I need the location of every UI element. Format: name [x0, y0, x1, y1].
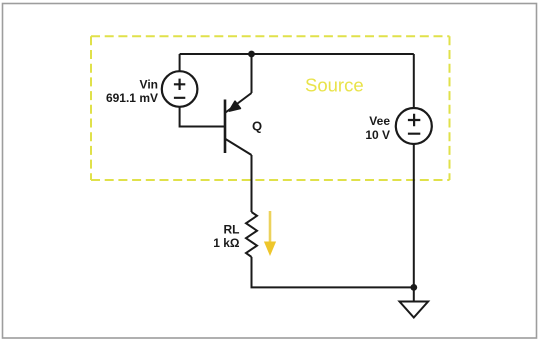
svg-text:691.1 mV: 691.1 mV — [106, 91, 158, 105]
wire Vin top lead — [179, 54, 181, 71]
source region dashed box — [91, 36, 450, 180]
svg-text:RL: RL — [224, 223, 240, 237]
wire Vin bottom lead to base — [180, 107, 224, 127]
resistor RL — [246, 212, 257, 257]
wire Vee top lead from rail — [413, 54, 415, 108]
transistor Q (PNP) — [225, 93, 252, 155]
label Source — [305, 75, 364, 96]
svg-text:Source: Source — [305, 75, 364, 96]
current arrow (yellow) — [264, 211, 276, 256]
node junction dot top rail — [248, 51, 255, 58]
label Vin 691.1 mV — [106, 78, 158, 106]
voltage source Vee — [396, 108, 432, 144]
wire collector to top rail — [251, 54, 253, 93]
svg-text:Vee: Vee — [369, 114, 390, 128]
voltage source Vin — [162, 71, 198, 107]
svg-text:Q: Q — [252, 119, 262, 134]
wire Vee bottom lead to ground node — [413, 144, 415, 287]
wire emitter down to RL — [251, 155, 253, 212]
svg-text:1 kΩ: 1 kΩ — [213, 236, 240, 250]
ground — [400, 287, 429, 317]
svg-text:10 V: 10 V — [365, 128, 390, 142]
svg-text:Vin: Vin — [140, 78, 158, 92]
label RL 1 kΩ — [213, 223, 240, 250]
wire top rail — [180, 53, 414, 55]
node junction dot ground — [410, 284, 417, 291]
label Vee 10 V — [365, 114, 390, 142]
wire RL bottom to ground node — [252, 257, 414, 288]
label Q — [252, 119, 262, 134]
